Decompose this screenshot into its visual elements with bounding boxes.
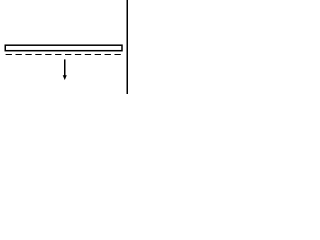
force arrow head — [63, 75, 67, 80]
force arrow shaft — [64, 59, 66, 76]
beam (horizontal bar) — [5, 45, 122, 51]
dashed reference line — [6, 54, 121, 56]
wall (fixed support at right edge) — [126, 0, 128, 94]
